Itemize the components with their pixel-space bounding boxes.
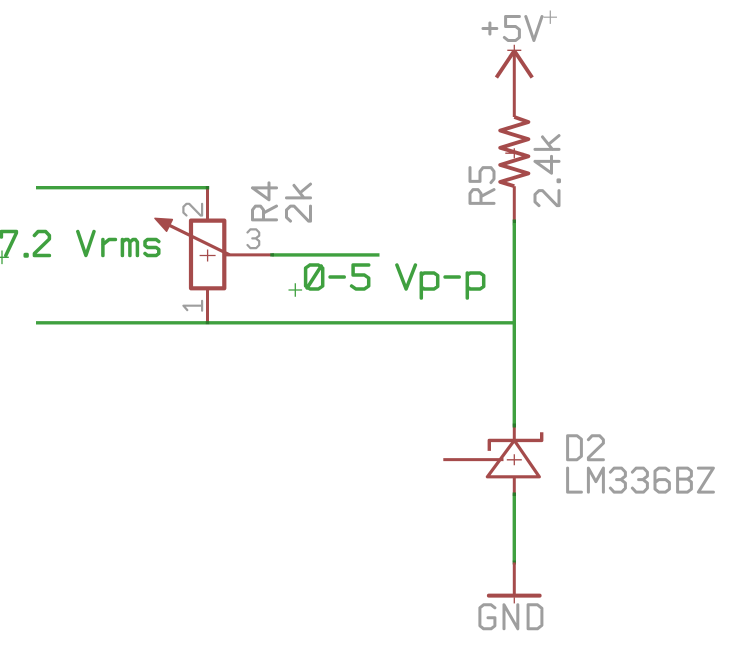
wiper arrowhead R4 (155, 218, 172, 231)
resistor R5 zigzag (500, 117, 528, 186)
pin 3 wire (224, 253, 271, 256)
pin-net overlap D2 bottom (513, 493, 516, 497)
label 0-5 Vp-p (306, 265, 484, 298)
gnd origin stub (513, 598, 515, 604)
pin number 3 (248, 229, 260, 248)
pin cross +5V (544, 11, 557, 24)
origin cross 0-5 Vp-p (289, 283, 303, 297)
pin D2 cathode top (513, 424, 516, 441)
wire net D2 to GND (513, 494, 516, 562)
wiper shaft R4 (163, 222, 230, 255)
pin number 2 (183, 204, 202, 216)
wire net bottom horizontal (36, 321, 516, 324)
wire net junction to D2 (513, 323, 516, 426)
origin cross R4 (200, 250, 216, 262)
label GND (480, 605, 542, 629)
pin1-net overlap (206, 321, 209, 324)
pin GND (513, 563, 516, 596)
origin cross R5 (505, 148, 523, 158)
pin R5 bottom (513, 186, 516, 221)
wire wiper net 0-5 Vp-p (272, 253, 380, 256)
value 2.4k (535, 136, 560, 206)
pot body R4 (191, 221, 224, 289)
pin-net overlap R5 (513, 220, 516, 226)
label R5 (470, 168, 494, 204)
wire +5V pin to R5 (513, 51, 516, 117)
origin cross D2 (507, 454, 522, 465)
cathode bar D2 (489, 432, 541, 451)
pin2-net overlap (206, 186, 209, 189)
pin number 1 (183, 301, 202, 311)
value LM336BZ (568, 468, 714, 492)
gnd bar (489, 594, 540, 598)
supply arrow +5V (496, 51, 532, 78)
pin-net overlap D2 top (513, 424, 516, 428)
wire net N$1 top (36, 186, 208, 189)
origin cross +5V symbol (507, 45, 521, 56)
pin 2 wire (206, 188, 209, 221)
pin3-net overlap (270, 253, 274, 256)
anode triangle D2 (487, 440, 539, 476)
adj pin line D2 (443, 458, 503, 461)
pin 1 wire (206, 288, 209, 323)
origin cross 7.2 Vrms (0, 251, 9, 265)
gnd-net overlap (513, 561, 516, 565)
supply +5V label (483, 17, 542, 41)
pin D2 anode bottom (513, 477, 516, 495)
label 7.2 Vrms (1, 232, 158, 257)
label D2 (568, 436, 604, 460)
label R4 (253, 183, 277, 220)
value 2k (287, 184, 311, 221)
wire net vertical R5 to junction (513, 223, 516, 323)
